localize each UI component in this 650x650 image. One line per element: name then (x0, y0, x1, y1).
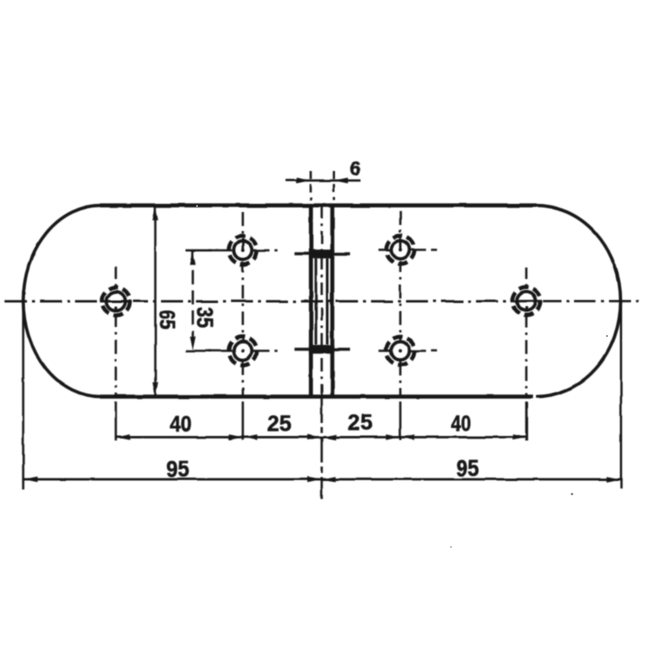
svg-text:35: 35 (192, 306, 218, 328)
svg-text:95: 95 (456, 455, 479, 481)
svg-text:95: 95 (166, 456, 189, 482)
svg-text:40: 40 (451, 411, 471, 436)
svg-text:25: 25 (348, 410, 373, 435)
svg-text:65: 65 (154, 310, 179, 330)
svg-text:6: 6 (350, 159, 361, 180)
svg-text:25: 25 (267, 411, 291, 436)
svg-text:40: 40 (170, 411, 192, 436)
